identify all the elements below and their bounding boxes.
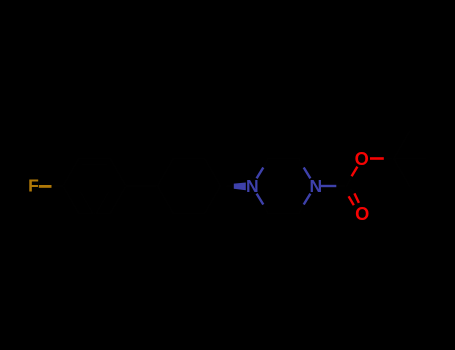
piperazine ring carbon parts	[263, 159, 303, 168]
wedge bond (dark apex half)	[221, 184, 235, 189]
red oxygen half bonds	[349, 159, 384, 206]
C-O ester oxygen half	[352, 167, 358, 177]
svg-text:N: N	[246, 176, 259, 196]
benzene ring	[63, 159, 126, 214]
tert-butyl bonds	[394, 131, 426, 186]
C=O carbon halves	[345, 189, 355, 196]
O-tBu carbon half	[383, 158, 393, 160]
svg-text:F: F	[28, 176, 39, 196]
blue N-C half bonds of piperazine	[257, 168, 337, 205]
svg-text:N: N	[309, 176, 322, 196]
cyclohexane ring	[158, 159, 221, 214]
O-tBu oxygen half	[370, 157, 384, 160]
benzene inner double bonds	[81, 164, 109, 213]
F-C bond carbon half	[51, 185, 63, 187]
C=O oxygen halves (double lines)	[349, 196, 354, 205]
carbon skeleton (near-black as in raw reference)	[51, 131, 425, 213]
C-O ester carbon half	[347, 176, 353, 186]
gold F-C half bond	[39, 185, 52, 188]
N2 to carbamate C carbon part	[336, 185, 346, 187]
svg-text:O: O	[355, 204, 369, 224]
wedge bond blue half	[234, 183, 246, 191]
biphenyl link bond	[126, 185, 158, 187]
svg-text:O: O	[355, 149, 369, 169]
